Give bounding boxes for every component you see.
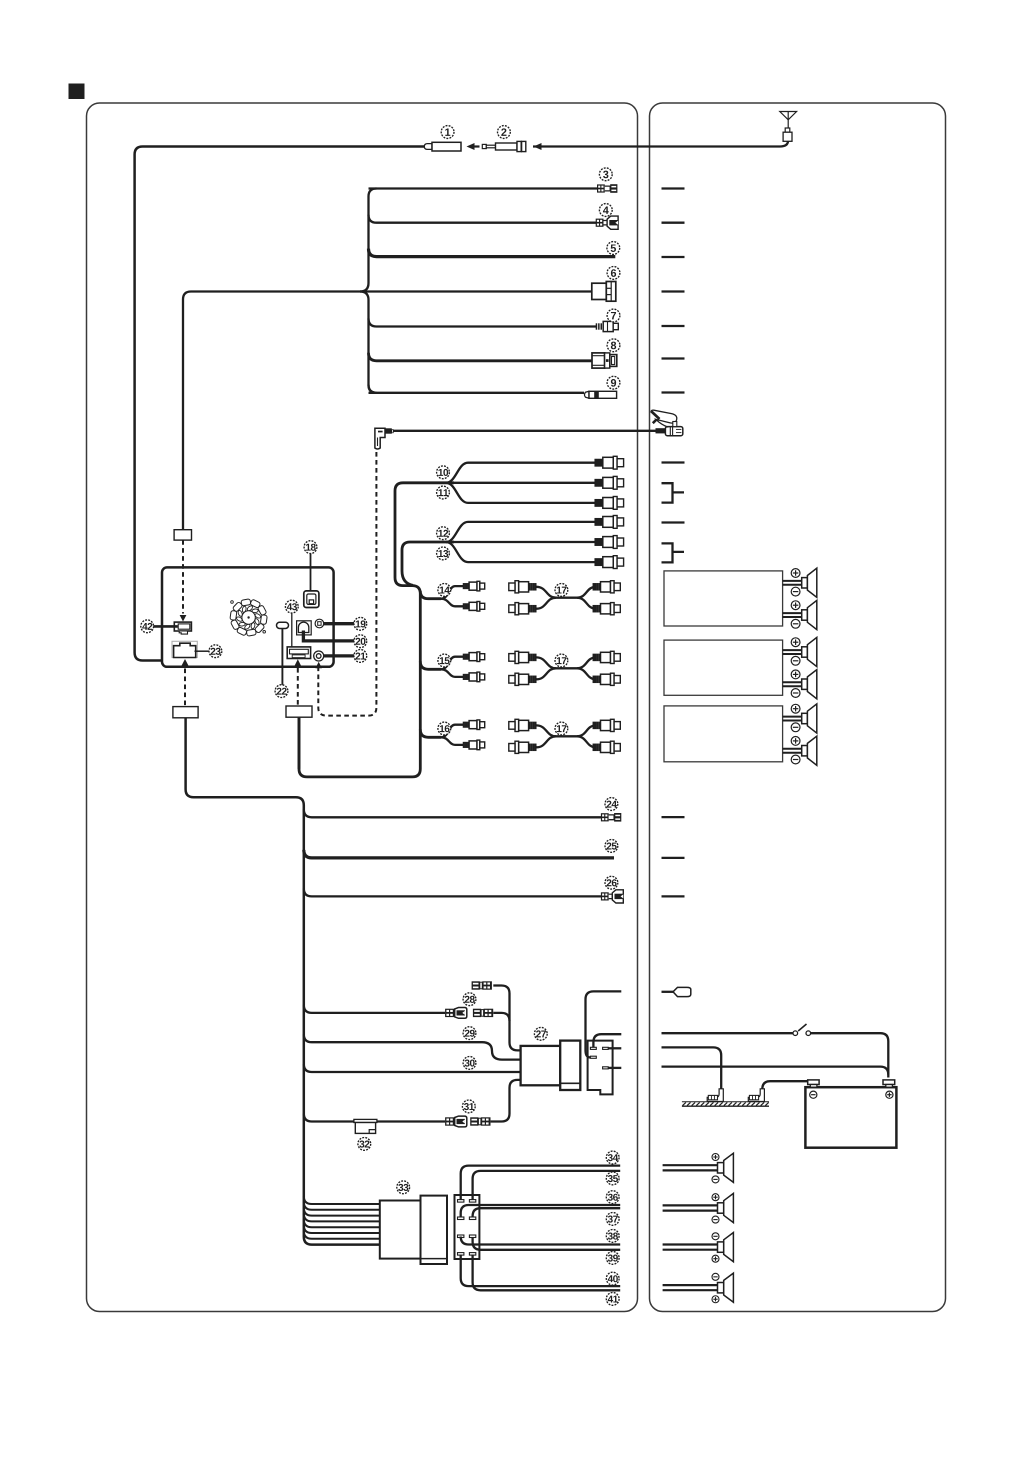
wire: to ground lead [608, 1047, 621, 1049]
speaker [802, 637, 817, 666]
speaker wires [663, 1284, 718, 1286]
battery feed wire [662, 1067, 889, 1075]
right panel wire stubs [662, 187, 685, 189]
label 30 [463, 1057, 476, 1070]
label 22 [275, 685, 288, 698]
label 23 [209, 645, 222, 658]
wire: branch 14 [420, 591, 441, 599]
ground wire 1 [662, 1047, 722, 1089]
connector 2 antenna plug [482, 144, 486, 148]
label 15 [438, 654, 451, 667]
speaker [718, 1153, 734, 1182]
wire to connector 9 [369, 385, 585, 393]
label 27 [534, 1027, 547, 1040]
wire to connector 6 (from head unit feed) [183, 292, 592, 530]
battery minus wire [762, 1081, 807, 1089]
label 1 [441, 126, 454, 139]
box feeding port 42 [174, 530, 191, 540]
battery [805, 1087, 896, 1148]
ground lug 2 [748, 1089, 764, 1102]
cooling fan [230, 599, 267, 637]
label 39 [606, 1252, 619, 1265]
wire to connector 5 [369, 249, 616, 257]
label 10 [437, 466, 450, 479]
box A [173, 707, 198, 718]
wire 24 [304, 809, 601, 817]
RCA plugs 10-13 [595, 456, 624, 469]
wire: accessory lead [593, 1034, 621, 1047]
port 20 s-video [297, 621, 312, 635]
port 18 square [304, 591, 319, 608]
speaker wires [783, 580, 802, 582]
speaker wires [783, 612, 802, 614]
wire 28 from trunk [304, 1005, 445, 1013]
connector 6 [592, 283, 607, 299]
label 26 [605, 876, 618, 889]
label 4 [599, 204, 612, 217]
port 19 [315, 619, 324, 628]
wire: small plug lead [586, 991, 622, 1057]
label 25 [605, 840, 618, 853]
top bullet lead [472, 981, 492, 989]
label 16 [438, 722, 451, 735]
box B [286, 706, 312, 717]
label 14 [438, 584, 451, 597]
label 21 [354, 650, 367, 663]
speaker wires [783, 748, 802, 750]
ignition switch wire [662, 1032, 793, 1034]
wire 31 from trunk through fuse [304, 1114, 445, 1122]
bullet pair 28 [445, 1008, 467, 1019]
wire: lead 12/13 merging [402, 542, 454, 585]
speaker wires [783, 649, 802, 651]
connector 9 [584, 391, 589, 398]
extension cable 17 [536, 587, 596, 598]
speaker [802, 736, 817, 765]
label 17 [555, 654, 568, 667]
label 11 [437, 486, 450, 499]
connector 26 [601, 892, 609, 900]
label 7 [607, 309, 620, 322]
label 12 [437, 527, 450, 540]
ISO connector [455, 1195, 480, 1259]
port 21 rca jack [314, 651, 324, 661]
label 2 [498, 126, 511, 139]
microphone body [665, 427, 682, 436]
speaker wires [663, 1243, 718, 1245]
port 43 leader [291, 612, 293, 651]
speaker [802, 704, 817, 733]
wires: group 12/13 split [446, 522, 595, 542]
RCA plug pair 16 [463, 720, 485, 730]
label 24 [605, 798, 618, 811]
wire: antenna lead from connector 1 to head unit port 23 [135, 147, 425, 661]
speaker wires [663, 1204, 718, 1206]
arrow between 1 and 2 [470, 145, 480, 147]
RCA plug pair 14 [463, 581, 485, 591]
connector 8 [592, 353, 605, 368]
port 22 oval [277, 622, 289, 628]
label 34 [606, 1151, 619, 1164]
bullet pair 31 [445, 1116, 467, 1127]
port 23 [172, 641, 197, 657]
label 32 [358, 1138, 371, 1151]
wire from box B to RCA trunk [298, 718, 301, 769]
connector 7 [596, 323, 598, 329]
label 29 [463, 1027, 476, 1040]
label 28 [463, 993, 476, 1006]
section marker [69, 84, 84, 99]
extension cable 17 [536, 657, 596, 668]
label 13 [437, 547, 450, 560]
speaker wires [783, 716, 802, 718]
wire: to battery lead [608, 1067, 621, 1069]
bracket stub 10/11 [662, 483, 685, 502]
amplifier boxes [664, 571, 783, 626]
right panel border [650, 103, 946, 1312]
left panel border [87, 103, 638, 1312]
wire to connector 8 [369, 353, 592, 361]
label 19 [354, 617, 367, 630]
wire: branch 15 [420, 661, 441, 669]
speaker [718, 1233, 734, 1262]
wire to connector 4 [369, 215, 597, 223]
wire: from car antenna to connector 2 with arrow [533, 141, 788, 147]
label 43 [285, 600, 298, 613]
wire trunk for connectors 3-9 [360, 189, 377, 292]
label 20 [354, 635, 367, 648]
dashed to box A with arrow up into port 23 [182, 659, 189, 666]
bracket stub 12/13 [662, 543, 685, 562]
label 6 [607, 267, 620, 280]
wires 34-41 [461, 1166, 621, 1200]
speaker [802, 670, 817, 699]
speaker [718, 1273, 734, 1302]
connector 24 [601, 813, 609, 821]
wire: lead 10/11 down to trunk [299, 483, 454, 777]
main harness trunk [186, 718, 380, 1245]
RCA plug pair 15 [463, 652, 485, 662]
label 17 [555, 722, 568, 735]
speaker wires [783, 681, 802, 683]
label 42 [141, 620, 154, 633]
label 37 [606, 1213, 619, 1226]
wire: male 28 to connector 27 [493, 1013, 509, 1021]
label 17 [555, 584, 568, 597]
wire 25 [304, 850, 614, 858]
wire to connector 7 [369, 319, 597, 327]
USB port [287, 647, 310, 659]
fuse holder 32 [354, 1119, 377, 1122]
car antenna symbol [780, 112, 797, 120]
label 33 [397, 1181, 410, 1194]
label 9 [607, 376, 620, 389]
port 42 [174, 622, 191, 631]
3.5mm right-angle plug [375, 428, 385, 449]
microphone clip [651, 410, 677, 427]
dashed cable: plug to port 21 [318, 452, 376, 716]
connector 3 [597, 184, 605, 192]
wire 30 [304, 1064, 521, 1072]
label 8 [607, 339, 620, 352]
wire: branch 16 [420, 729, 441, 737]
label 18 [304, 541, 317, 554]
speaker [718, 1193, 734, 1222]
label 41 [606, 1293, 619, 1306]
label 31 [462, 1100, 475, 1113]
ground lug 1 [707, 1089, 723, 1102]
speaker [802, 600, 817, 629]
wire 26 [304, 888, 601, 896]
chassis ground [682, 1101, 769, 1103]
head unit [162, 567, 334, 666]
label 36 [606, 1191, 619, 1204]
wire: male 31 to connector 27 [491, 1080, 521, 1122]
connector 27 body [521, 1046, 561, 1085]
wire: microphone to plug [393, 430, 664, 432]
extension cable 17 [536, 725, 596, 736]
mating power connector [588, 1041, 613, 1095]
label 3 [599, 168, 612, 181]
wires: group 10/11 split [446, 463, 595, 483]
speaker [802, 568, 817, 597]
wire 29 [304, 1034, 521, 1059]
label 5 [607, 242, 620, 255]
connector 4 [596, 219, 604, 227]
label 40 [606, 1272, 619, 1285]
speaker wires [663, 1164, 718, 1166]
connector 1 antenna socket [424, 144, 432, 150]
small plug lead [662, 991, 674, 993]
connector 33 [380, 1201, 421, 1259]
8-wire fan-out [304, 1196, 380, 1204]
label 35 [606, 1172, 619, 1185]
label 38 [606, 1230, 619, 1243]
wire to connector 3 [369, 187, 598, 189]
